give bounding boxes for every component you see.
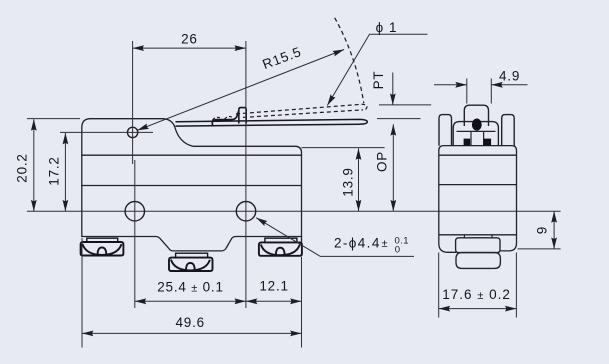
dashed arcs over ridge (213, 117, 222, 119)
terminal screw (left) (81, 238, 124, 255)
side roller pin (black) (472, 119, 482, 131)
side seam line (439, 184, 517, 186)
svg-text:17.2: 17.2 (47, 156, 62, 185)
extension line side left (438, 253, 440, 318)
svg-text:13.9: 13.9 (341, 167, 356, 196)
extension line plunger right (490, 79, 492, 104)
right mounting hole (236, 202, 255, 221)
svg-text:OP: OP (375, 151, 390, 172)
extension line step right (518, 248, 561, 250)
leader line R15.5 (137, 50, 344, 131)
side plunger button (464, 105, 488, 126)
lever pivot hole (127, 127, 137, 137)
terminal screw (right) (259, 238, 302, 256)
dimension line 26 (133, 47, 246, 49)
side contact block left (black) (464, 139, 471, 146)
extension line plunger left (466, 79, 468, 104)
extension line side right (515, 253, 517, 318)
svg-text:25.4 ± 0.1: 25.4 ± 0.1 (157, 280, 224, 295)
leader line 2-phi4.4 (256, 218, 414, 257)
leader line phi-1 (327, 34, 427, 105)
dimension line 4.9 left part (434, 84, 467, 86)
dimension line 17.2 (64, 133, 66, 211)
lever free position (dashed) upper line (236, 104, 362, 114)
extension line, body left bottom (81, 238, 83, 348)
side bottom line (439, 234, 517, 236)
dimension line 12.1 (246, 300, 302, 302)
side bracket inner line (457, 130, 496, 132)
plunger pin on lever (239, 108, 246, 124)
dimension line OP (392, 124, 394, 211)
dimension line 4.9 right part (491, 84, 527, 86)
dimension line 20.2 (33, 119, 35, 211)
lever tip swing arc (dashed) (335, 18, 364, 103)
extension line, body right bottom (301, 257, 303, 348)
side body outline (439, 146, 517, 253)
ridge bump on lever (212, 111, 238, 125)
svg-text:9: 9 (535, 227, 550, 235)
screw mounting ticks (464, 235, 492, 238)
extension line, pivot horizontal (60, 131, 153, 133)
svg-text:26: 26 (181, 32, 198, 47)
side contact block right (black) (484, 139, 492, 146)
body top line (82, 154, 302, 156)
main centre line through mounting holes (extends under both views) (27, 210, 561, 212)
dimension line 17.6 (439, 308, 517, 310)
dimension line 9 (553, 211, 555, 249)
side terminal screw lower (456, 253, 500, 269)
svg-text:12.1: 12.1 (259, 279, 288, 294)
svg-text:±: ± (382, 238, 388, 250)
extension line, lever top right (377, 118, 421, 120)
side terminal screw upper (456, 238, 500, 253)
side view dimensions (434, 79, 561, 318)
extension line, body ledge right (302, 147, 385, 149)
extension line, plunger / right hole vertical (245, 41, 247, 308)
svg-text:2-ϕ4.4: 2-ϕ4.4 (334, 236, 381, 251)
dimension line 13.9 (358, 148, 360, 211)
body seam line (82, 185, 302, 187)
svg-text:0: 0 (395, 245, 400, 256)
extension line, free position tip level (379, 104, 431, 106)
dimension line 25.4 (135, 300, 246, 302)
dimension line 49.6 (82, 332, 302, 334)
svg-text:17.6 ± 0.2: 17.6 ± 0.2 (442, 287, 511, 302)
svg-text:20.2: 20.2 (15, 153, 30, 182)
body bottom profile (82, 237, 302, 251)
switch body outline (front view) (82, 119, 302, 243)
svg-text:PT: PT (371, 71, 386, 90)
side plunger stem (471, 131, 484, 145)
svg-text:4.9: 4.9 (499, 69, 520, 84)
side left wing (439, 115, 452, 146)
lever arm (solid, operating position) (176, 119, 367, 126)
side cap line (439, 154, 517, 156)
dimension line PT (upper arrow) (392, 73, 394, 105)
lever free position (dashed) lower line (243, 110, 362, 118)
side right wing (502, 115, 515, 146)
svg-text:ϕ 1: ϕ 1 (376, 20, 398, 35)
left mounting hole (125, 202, 144, 221)
lever free position dashed tip arc (362, 104, 367, 110)
terminal screw (middle) (169, 253, 213, 271)
svg-text:49.6: 49.6 (175, 315, 204, 330)
side head bracket (453, 122, 498, 146)
extension line, pivot vertical (132, 41, 134, 164)
extension line, lever top left (27, 118, 80, 120)
extension line, left hole vertical (134, 160, 136, 308)
